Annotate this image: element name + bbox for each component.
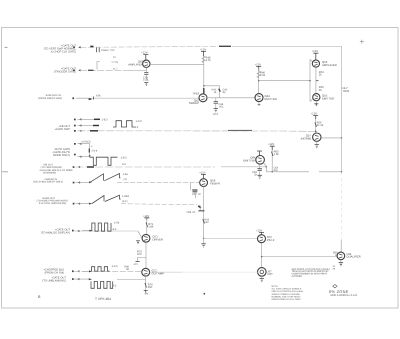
resistor R59 560 [203,219,205,224]
svg-text:+12V: +12V [200,47,207,51]
transistor Q42 [199,94,207,102]
wire row1 [78,118,95,120]
jack J67 inner [260,270,264,274]
wire Q72 collector to jack [150,271,182,273]
label Q72 left [124,266,129,272]
svg-text:560: 560 [204,221,209,224]
resistor R48 [202,56,205,64]
node Q44 collector to bases bus [258,80,259,81]
svg-text:SWEEP. TIMING IS SHOWN: SWEEP. TIMING IS SHOWN [272,293,301,296]
resistor mark divider [88,149,90,153]
svg-text:BLANKING): BLANKING) [43,171,56,174]
ground row I junction [199,210,205,212]
label R71 [148,223,154,229]
cable capacitor under line1 [97,48,100,53]
svg-text:+4.5V(3): +4.5V(3) [81,141,91,144]
arrowhead row H [89,181,92,183]
wire R48 down to Q42 collector [203,64,205,93]
arrowhead row K [89,270,92,272]
terminal K [72,270,74,272]
svg-text:(TO ANALOG DISPLAY): (TO ANALOG DISPLAY) [41,231,70,234]
hanging RC off Q58 base [189,183,191,191]
svg-text:ARE ILLUSTRATED AS A 0.5ms: ARE ILLUSTRATED AS A 0.5ms [272,290,304,293]
shield bracket line2 [97,62,100,70]
label R53 [319,71,324,77]
terminal C [72,97,74,99]
label block L6 [39,164,73,175]
arrowhead row2 [93,125,99,127]
small text near Q77 ground [333,265,336,271]
wire Q64 emitter to output node [263,163,266,172]
node R56/Q57 base [315,131,317,133]
terminal H [73,182,75,184]
svg-text:FB BFR: FB BFR [210,182,220,186]
ground below C44 [214,109,218,112]
svg-text:-8V: -8V [144,292,148,296]
svg-text:1 7 25: 1 7 25 [111,61,118,64]
wire Q42 emitter line to Q44 [207,97,255,99]
label Q72 right [152,268,165,275]
label block L4 (gate group) [54,125,70,131]
ground below C43 [144,83,148,86]
wire row H stub [76,181,90,183]
diamond mark [333,285,337,288]
+12V small feed Q64 [257,151,262,156]
wire: line1 top bus y46.5 [81,45,218,48]
label R55 [319,86,324,92]
resistor R46 [257,69,260,94]
wire row I stub [76,203,93,205]
resistor R65 [271,150,273,172]
waveform square pulses row K [92,267,110,272]
label Q55 [322,93,334,100]
vertical from row I junction to ground [199,206,201,211]
label R76 [148,284,153,290]
svg-text:EMITTER: EMITTER [322,96,334,100]
label Q77 left [333,252,339,258]
label R56 [317,121,324,127]
svg-text:QUALIFIER: QUALIFIER [347,255,361,258]
svg-text:+12V: +12V [143,214,150,218]
ground below jack [261,276,263,278]
svg-text:(1): (1) [124,178,127,181]
wire row H dashed to Q58 base [117,182,200,184]
wire Q71 emitter down to Q72 [145,242,147,268]
label block L5 [52,148,70,157]
resistor R73 branch [138,258,147,262]
label C44 [219,103,225,109]
svg-text:NOTE:: NOTE: [272,285,279,288]
wire row K to Q72 base [74,270,142,272]
svg-text:EMITTER: EMITTER [265,97,277,101]
wire row F [78,156,91,158]
svg-text:CABLE 7 PF: CABLE 7 PF [101,49,115,52]
arrow at divider bottom [89,155,91,158]
tee branch R45 off R48 rail [204,86,220,98]
wire y256.4 to output transistor [262,256,337,258]
terminal E [74,143,76,145]
node tick y80.7 [316,80,319,82]
label Q53 [322,60,337,67]
wire row G to Q64 base [76,166,216,168]
terminal F [74,154,76,156]
svg-text:NOMINAL ONLY FOR VIDEO: NOMINAL ONLY FOR VIDEO [272,295,301,298]
svg-text:+12V: +12V [141,51,148,55]
svg-text:CRT: CRT [267,273,273,276]
label block L8 [37,197,69,205]
svg-text:MOD A WORKS I.A.A.R: MOD A WORKS I.A.A.R [331,294,358,297]
svg-text:ALTERED: ALTERED [292,275,303,278]
svg-text:WAVEFORMS AT FULL AMPL.: WAVEFORMS AT FULL AMPL. [272,298,302,301]
svg-text:P32-9: P32-9 [267,238,275,242]
dark segment row3 [228,129,252,131]
label Q77 right [347,253,361,259]
svg-text:(FROM CH SW): (FROM CH SW) [45,271,65,274]
label Q44 [265,94,277,101]
label J67 [267,271,273,277]
svg-text:C58 .02: C58 .02 [187,211,196,214]
svg-text:(TO UNBLANKING): (TO UNBLANKING) [42,279,66,282]
label Q57 [301,133,312,140]
svg-text:(DELAYING SWEEP ONLY): (DELAYING SWEEP ONLY) [33,181,63,184]
wire row L [74,278,90,280]
label R59 [204,219,209,225]
label block L10 (chopped blanking) [43,268,64,274]
wire Q67 emitter down to jack [261,243,263,268]
svg-text:TRIG: TRIG [343,89,350,93]
label R65 [274,150,280,156]
svg-text:0% ZONE: 0% ZONE [329,289,349,294]
svg-text:+12V: +12V [312,49,319,53]
waveform narrow pulses below F [90,157,118,165]
svg-text:EMITTER: EMITTER [243,159,255,163]
terminal -8V [144,291,148,293]
output transistor Q77 [337,252,345,260]
svg-text:1-8.3: 1-8.3 [102,118,109,121]
emitter stub Q55 to -8V [315,101,317,104]
terminal A [73,46,75,48]
waveform hanging pulses row L [91,281,113,288]
label block L9 (+gate analog display) [41,228,71,234]
transistor Q57 [313,133,321,141]
arrowhead on line1 [90,46,93,48]
ground below C62 [258,175,262,178]
label DLY TRIG at bus [343,86,350,93]
label block L1 (+GATE OUT to vert sweep) [44,45,77,54]
label Q64 [243,156,256,163]
transistor Q58 [200,179,208,187]
svg-text:4.7k: 4.7k [206,59,212,62]
node to output stage [261,256,263,258]
transistor Q43 [143,60,150,67]
junction blob row I end [198,206,201,208]
waveform square pulses row J [92,223,111,231]
svg-text:1-8a: 1-8a [123,173,129,176]
parts list note [292,268,331,278]
svg-text:C57 .02: C57 .02 [192,193,201,196]
arrowhead on line2 [88,69,94,71]
svg-text:& CHOP CLK GATE): & CHOP CLK GATE) [51,51,76,54]
svg-text:(FROM SWEEP GEN): (FROM SWEEP GEN) [38,97,62,100]
left edge speck 2 [2,171,8,173]
svg-text:1-0k: 1-0k [114,222,120,225]
Q44 emitter stub [258,102,260,105]
capacitor C43 below Q43 [145,68,147,73]
right vertical bus x341.5 [341,46,343,172]
transistor Q64 [256,156,265,165]
svg-text:MODE ONLY): MODE ONLY) [53,154,70,157]
ground tap at Q71 base [136,241,140,244]
terminal B [73,70,75,72]
svg-text:1-8.3: 1-8.3 [121,157,128,160]
svg-text:ALL GATE CIRCUIT SIGNALS: ALL GATE CIRCUIT SIGNALS [272,288,302,291]
svg-text:1-0.2: 1-0.2 [136,120,143,123]
svg-text:470.8: 470.8 [91,150,98,153]
label block L3 (SWP gate in) [38,94,62,100]
label R46 [260,72,266,78]
wire row3 long bus to Q57 base [78,130,316,133]
capacitor C44 to ground [215,98,217,102]
registration cross [360,40,364,44]
terminal mark R73 bottom [136,261,140,263]
resistor R71 [146,220,148,235]
sawtooth waveform row I [92,195,121,203]
svg-text:1.8k: 1.8k [148,225,154,228]
arrowhead row J [89,230,92,232]
svg-text:51.2k: 51.2k [317,124,324,127]
svg-text:5.6k: 5.6k [260,74,266,77]
svg-text:-12V: -12V [133,263,138,266]
wire row2 [78,125,94,127]
stray ink dot [203,293,205,295]
wire row J [74,230,138,232]
wire: line2 to Q43 base [80,69,128,71]
svg-text:.001: .001 [219,106,225,109]
svg-text:7p: 7p [254,173,257,176]
svg-text:& ALT/CAL AMPLIFIERS): & ALT/CAL AMPLIFIERS) [39,202,66,205]
ground below Q57 [316,141,318,144]
sawtooth waveform row H [90,174,120,183]
transistor Q44 [255,94,263,102]
svg-text:560: 560 [148,286,153,289]
bottom note [272,285,304,301]
transistor Q67 [258,235,266,243]
terminal E2 [74,125,76,127]
jack J67 outer [258,268,267,277]
svg-text:+GATE SWP: +GATE SWP [54,128,70,131]
svg-text:+12V: +12V [255,62,262,66]
transistor Q71 [142,234,150,242]
svg-text:4.2: 4.2 [135,126,139,129]
wire Q58 emitter down [203,187,205,239]
arrowhead on line3 [89,98,92,100]
arrowhead row G [87,166,94,168]
svg-text:7-25: 7-25 [143,79,149,82]
svg-text:DRIVER: DRIVER [153,238,164,242]
label Q58 [210,179,220,186]
terminal I [73,203,75,205]
ground below Q77 [340,260,342,263]
arrowhead row1 [94,118,100,120]
label C45 [223,89,228,95]
svg-text:1.5k: 1.5k [274,153,280,156]
svg-text:TP43: TP43 [192,91,199,95]
svg-text:AMPLIFIER: AMPLIFIER [322,63,337,67]
svg-text:1-0.2: 1-0.2 [112,265,119,268]
label block L11 (-gate unblanking) [42,276,66,282]
terminal D [74,119,76,121]
label Q67 [267,235,275,242]
capacitor C62 below Q64 [259,164,261,168]
arrowhead row L [89,278,92,280]
wire to Q67 base [204,237,258,239]
transistor Q72 [142,268,150,276]
arrowhead row I [89,203,92,205]
terminal L [72,278,74,280]
label Q71 [153,235,164,242]
svg-text:12C5: 12C5 [213,113,219,116]
svg-text:4-2: 4-2 [113,228,117,231]
label block L7 [33,178,63,184]
component mark C57 [192,190,197,192]
wire Q53 emitter down [315,67,317,93]
svg-text:SWEEP: SWEEP [189,101,199,105]
wire Q72 emitter down [145,276,147,290]
transistor Q53 [312,60,319,67]
svg-text:(2-1): (2-1) [122,200,128,203]
wire output row y171.5 to right bus [266,171,309,173]
left edge speck 1 [5,46,8,48]
resistor R76 [145,283,147,288]
svg-text:(TRIGGER GATE): (TRIGGER GATE) [54,70,76,73]
svg-text:+12V: +12V [256,228,263,232]
Q43 emitter stub to line2 node [145,67,147,70]
resistor R47 dark [203,88,205,93]
dark segment on line1 [219,45,231,47]
wire Q43 collector to node R48 [150,63,204,65]
resistor R45 mark [219,89,221,92]
svg-text:100: 100 [137,253,142,256]
svg-text:(NORM): (NORM) [301,136,311,140]
label Q43 [128,60,143,67]
waveform square pulses row2 [113,121,135,127]
svg-text:47k: 47k [96,94,101,98]
label block L2 (+GATE OUT trigger) [54,67,76,73]
svg-text:4-2: 4-2 [113,285,117,288]
transistor Q55 [313,94,320,101]
label R45 [212,89,217,95]
svg-text:1-8B3: 1-8B3 [122,195,129,198]
svg-text:T VPS 4B1: T VPS 4B1 [95,297,111,301]
label Q42 [189,91,200,105]
terminal J [72,230,74,232]
terminal F2 [74,130,76,132]
wire: line3 to Q42 base [76,97,199,99]
label R73 [137,251,142,257]
svg-text:4.3: 4.3 [122,163,126,166]
svg-text:AMPLIFIER: AMPLIFIER [128,63,143,67]
arrowhead row3 [90,130,98,132]
label C43 [143,77,149,83]
svg-text:+12V: +12V [268,142,275,146]
wire divider vertical [89,144,91,156]
base bracket Q53/Q55 [310,60,312,102]
svg-text:+12V: +12V [311,111,318,115]
node Q58 emitter / Q67 base [203,238,204,239]
wire row I dashed right [121,204,197,205]
resistor R56 [315,119,317,133]
label C62 [252,171,257,177]
label R48 [206,57,212,63]
ground below node [203,238,205,244]
terminal G [73,166,75,168]
wire Q57 collector to right bus [321,137,342,139]
wire row E [78,143,90,145]
wire y80.7 to Q53/Q55 bases [259,80,310,82]
